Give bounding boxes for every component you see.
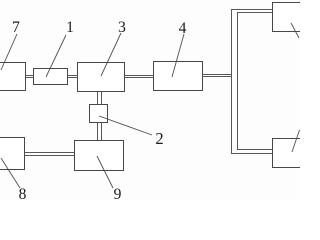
svg-text:8: 8 bbox=[19, 186, 27, 200]
svg-text:2: 2 bbox=[155, 129, 163, 148]
svg-text:9: 9 bbox=[114, 186, 122, 200]
svg-text:3: 3 bbox=[118, 19, 126, 36]
svg-text:7: 7 bbox=[12, 19, 20, 36]
svg-text:4: 4 bbox=[179, 20, 187, 37]
svg-text:1: 1 bbox=[66, 19, 74, 36]
